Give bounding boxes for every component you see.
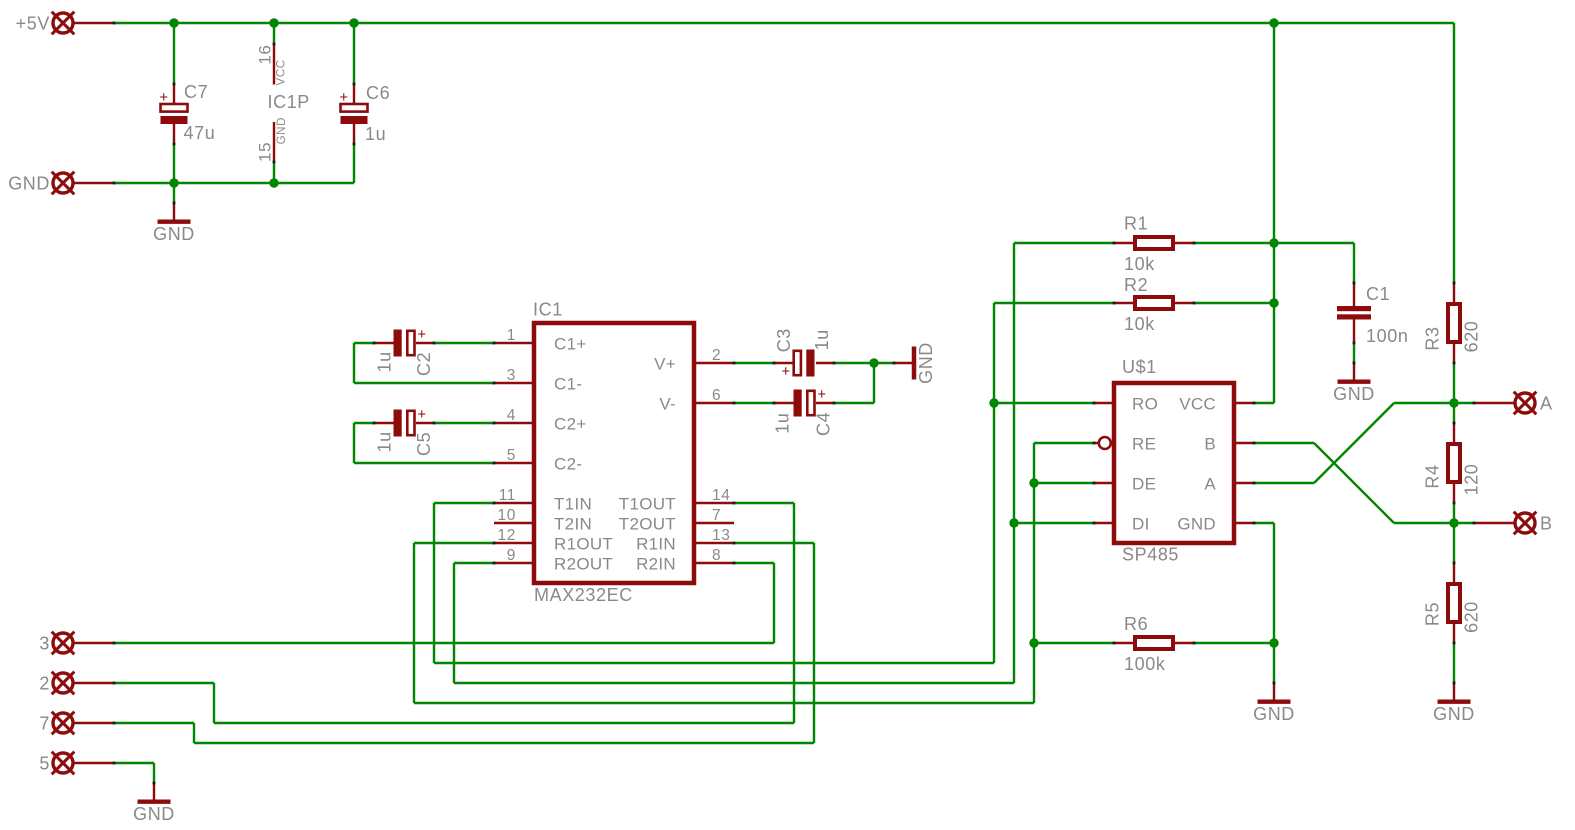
svg-text:B: B bbox=[1204, 435, 1216, 454]
svg-text:1u: 1u bbox=[812, 329, 832, 350]
svg-text:IC1: IC1 bbox=[533, 300, 563, 320]
svg-text:A: A bbox=[1204, 475, 1216, 494]
svg-text:10k: 10k bbox=[1124, 314, 1155, 334]
svg-text:C2+: C2+ bbox=[554, 415, 587, 434]
svg-text:120: 120 bbox=[1462, 464, 1482, 496]
svg-text:DI: DI bbox=[1132, 515, 1150, 534]
svg-text:C6: C6 bbox=[366, 83, 390, 103]
svg-text:R2: R2 bbox=[1124, 275, 1148, 295]
svg-text:GND: GND bbox=[1433, 704, 1475, 724]
svg-text:T1IN: T1IN bbox=[554, 495, 592, 514]
svg-text:1u: 1u bbox=[374, 431, 394, 452]
svg-text:C3: C3 bbox=[774, 328, 794, 352]
svg-text:GND: GND bbox=[276, 117, 288, 144]
svg-text:C7: C7 bbox=[184, 82, 208, 102]
svg-text:GND: GND bbox=[916, 342, 936, 384]
svg-text:620: 620 bbox=[1462, 321, 1482, 353]
svg-text:C1+: C1+ bbox=[554, 335, 587, 354]
svg-text:620: 620 bbox=[1462, 601, 1482, 633]
svg-text:12: 12 bbox=[498, 527, 516, 544]
svg-text:VCC: VCC bbox=[1179, 395, 1216, 414]
svg-text:B: B bbox=[1540, 514, 1553, 534]
svg-text:C2: C2 bbox=[414, 352, 434, 376]
svg-text:R1: R1 bbox=[1124, 214, 1148, 234]
svg-text:R4: R4 bbox=[1423, 464, 1443, 488]
svg-text:RO: RO bbox=[1132, 395, 1158, 414]
svg-text:47u: 47u bbox=[184, 123, 216, 143]
svg-text:C1: C1 bbox=[1366, 284, 1390, 304]
svg-text:7: 7 bbox=[39, 714, 50, 734]
svg-text:3: 3 bbox=[39, 634, 50, 654]
svg-text:DE: DE bbox=[1132, 475, 1156, 494]
svg-text:1u: 1u bbox=[365, 124, 386, 144]
svg-text:T2OUT: T2OUT bbox=[619, 515, 676, 534]
svg-text:C4: C4 bbox=[813, 412, 833, 436]
svg-text:10: 10 bbox=[498, 507, 516, 524]
svg-text:V+: V+ bbox=[654, 355, 676, 374]
svg-text:+: + bbox=[781, 363, 790, 380]
svg-text:GND: GND bbox=[1177, 515, 1216, 534]
svg-text:5: 5 bbox=[39, 754, 50, 774]
svg-text:+: + bbox=[417, 326, 426, 343]
svg-text:1u: 1u bbox=[773, 412, 793, 433]
svg-text:4: 4 bbox=[507, 407, 516, 424]
svg-text:R3: R3 bbox=[1423, 326, 1443, 350]
svg-text:R1OUT: R1OUT bbox=[554, 535, 613, 554]
svg-text:R2OUT: R2OUT bbox=[554, 555, 613, 574]
svg-text:U$1: U$1 bbox=[1122, 357, 1157, 377]
svg-text:MAX232EC: MAX232EC bbox=[534, 585, 633, 605]
svg-text:T1OUT: T1OUT bbox=[619, 495, 676, 514]
svg-text:R1IN: R1IN bbox=[636, 535, 676, 554]
svg-text:C1-: C1- bbox=[554, 375, 582, 394]
svg-text:5: 5 bbox=[507, 447, 516, 464]
svg-text:R6: R6 bbox=[1124, 614, 1148, 634]
svg-text:2: 2 bbox=[39, 674, 50, 694]
svg-text:+: + bbox=[817, 386, 826, 403]
svg-text:1: 1 bbox=[507, 327, 516, 344]
svg-text:SP485: SP485 bbox=[1122, 545, 1179, 565]
svg-text:R5: R5 bbox=[1423, 602, 1443, 626]
svg-text:1u: 1u bbox=[374, 351, 394, 372]
svg-text:9: 9 bbox=[507, 547, 516, 564]
svg-text:2: 2 bbox=[712, 347, 721, 364]
svg-text:GND: GND bbox=[133, 804, 175, 824]
svg-text:RE: RE bbox=[1132, 435, 1156, 454]
svg-text:A: A bbox=[1540, 394, 1553, 414]
svg-text:T2IN: T2IN bbox=[554, 515, 592, 534]
svg-text:GND: GND bbox=[153, 224, 195, 244]
svg-text:13: 13 bbox=[712, 527, 730, 544]
svg-text:11: 11 bbox=[499, 487, 516, 504]
svg-text:6: 6 bbox=[712, 387, 721, 404]
svg-text:C2-: C2- bbox=[554, 455, 582, 474]
svg-text:+: + bbox=[159, 89, 168, 106]
svg-text:16: 16 bbox=[256, 45, 275, 65]
svg-text:7: 7 bbox=[712, 507, 721, 524]
svg-text:+: + bbox=[339, 89, 348, 106]
svg-text:VCC: VCC bbox=[276, 59, 288, 85]
svg-text:10k: 10k bbox=[1124, 254, 1155, 274]
svg-text:IC1P: IC1P bbox=[268, 92, 310, 112]
svg-text:R2IN: R2IN bbox=[636, 555, 676, 574]
svg-text:14: 14 bbox=[712, 487, 730, 504]
svg-text:GND: GND bbox=[1253, 704, 1295, 724]
svg-text:+: + bbox=[417, 406, 426, 423]
svg-text:C5: C5 bbox=[414, 432, 434, 456]
svg-text:GND: GND bbox=[8, 174, 50, 194]
svg-text:8: 8 bbox=[712, 547, 721, 564]
svg-text:15: 15 bbox=[256, 142, 275, 162]
svg-text:+5V: +5V bbox=[16, 14, 50, 34]
svg-text:3: 3 bbox=[507, 367, 516, 384]
svg-text:100n: 100n bbox=[1366, 326, 1408, 346]
svg-text:100k: 100k bbox=[1124, 654, 1166, 674]
svg-text:V-: V- bbox=[659, 395, 676, 414]
svg-text:GND: GND bbox=[1333, 384, 1375, 404]
